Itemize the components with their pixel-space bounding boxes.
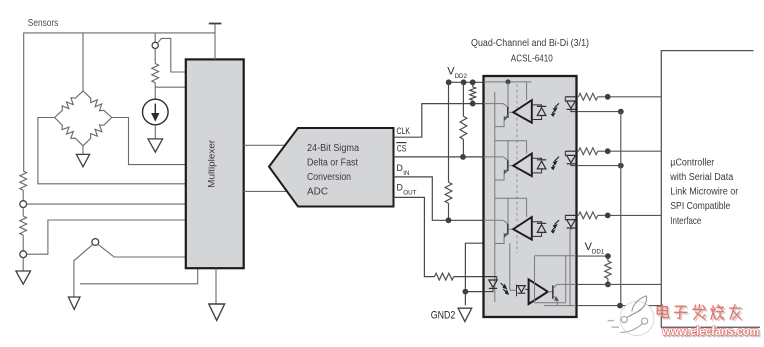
power bar VDD mux [214, 24, 216, 60]
wire: isolation barrier (dashed) [516, 84, 518, 253]
light arrows ch3 [554, 220, 559, 224]
svg-text:GND2: GND2 [431, 309, 456, 321]
resistor R series LED [577, 96, 579, 98]
wire CLK [394, 104, 505, 138]
wire to uController [611, 150, 662, 152]
svg-text:ADC: ADC [307, 186, 328, 197]
ground current source [154, 125, 156, 139]
opto channel 1 buffer triangle [513, 100, 532, 123]
svg-text:DD2: DD2 [455, 73, 468, 80]
uController block [661, 51, 760, 328]
ground divider [22, 258, 24, 271]
svg-text:Delta or Fast: Delta or Fast [307, 158, 358, 169]
svg-text:24-Bit Sigma: 24-Bit Sigma [307, 143, 360, 154]
wire: ch3 cathode internal to GND1 [569, 230, 571, 306]
resistor R series LED [577, 214, 579, 216]
node A divider tap 1 [20, 201, 27, 208]
svg-text:www.elecfans.com: www.elecfans.com [661, 325, 759, 338]
diode receiver ch4 [516, 285, 518, 297]
opto channel 2 input stage [484, 156, 504, 158]
wire: GND1 to uController [577, 305, 661, 307]
node B divider tap 2 [20, 251, 27, 258]
wire DOUT [394, 197, 435, 276]
svg-text:with Serial Data: with Serial Data [669, 172, 733, 183]
svg-text:D: D [397, 163, 403, 173]
switch sensor contact [92, 239, 99, 246]
wire GND2 net [465, 243, 509, 305]
diode LED monitor ch2 [532, 158, 542, 160]
wire: terminal jog to mux [157, 38, 185, 72]
node: sensor top rail [24, 33, 215, 171]
ground GND2 [458, 308, 472, 321]
diode LED monitor ch3 [532, 222, 542, 224]
svg-text:Sensors: Sensors [28, 18, 58, 29]
svg-text:OUT: OUT [403, 189, 416, 196]
opto channel 2 buffer triangle [513, 154, 532, 177]
opto channel 4 LED input [484, 276, 497, 278]
wire: terminal feed [154, 33, 156, 42]
svg-text:CLK: CLK [397, 126, 411, 136]
wire: bridge left output [38, 118, 186, 184]
wire: switch output to mux [98, 244, 186, 257]
wire: mux to ADC lower [244, 190, 288, 192]
op-amp/ADC block U2 [269, 128, 394, 207]
multiplexer U1 [186, 59, 244, 268]
svg-text:Multiplexer: Multiplexer [207, 139, 218, 188]
svg-text:Conversion: Conversion [307, 172, 351, 183]
svg-text:D: D [397, 182, 403, 192]
wire to uController [611, 214, 662, 216]
wire VDD1 [577, 255, 605, 257]
wire: ch4 bias frame [535, 255, 577, 257]
resistor R sense [154, 49, 156, 64]
diode LED input ch1 [565, 96, 576, 98]
current source I1 [143, 99, 169, 125]
resistor R pullup CLK [472, 82, 474, 87]
wire DIN [394, 177, 505, 220]
ground bridge [82, 146, 84, 155]
resistor R series LED [577, 150, 579, 152]
resistor R pullup DOUT [607, 259, 609, 261]
wire: bridge top feed [82, 33, 84, 91]
light arrows ch1 [554, 103, 559, 107]
svg-text:Quad-Channel and Bi-Di (3/1): Quad-Channel and Bi-Di (3/1) [471, 38, 589, 49]
wire: mux to ADC upper [244, 144, 286, 146]
light arrows ch2 [554, 157, 559, 161]
wire: internal GND1 [544, 305, 576, 307]
wire: spare input to mux bottom [80, 269, 198, 284]
light arrows ch4 [501, 283, 506, 288]
diode LED monitor ch1 [532, 105, 542, 107]
wire: mux bottom pin [215, 268, 217, 304]
svg-text:Link Microwire or: Link Microwire or [670, 187, 739, 198]
wire: bridge right output [112, 118, 186, 165]
resistor R pullup DIN [448, 82, 450, 182]
svg-text:IN: IN [403, 170, 409, 177]
svg-text:DD1: DD1 [592, 249, 605, 256]
opto channel 3 buffer triangle [513, 217, 532, 240]
svg-text:Interface: Interface [670, 216, 701, 227]
opto channel 1 input stage [484, 103, 504, 105]
wire to uController [611, 96, 662, 98]
resistor R divider bottom [22, 208, 24, 217]
bridge sensor (4 resistors) [55, 91, 83, 118]
transistor Q out ch4 [548, 291, 553, 293]
ground switch [68, 297, 80, 309]
svg-text:µController: µController [670, 157, 715, 168]
opto channel 4 buffer triangle [529, 279, 548, 304]
wire: internal VDD2 rail [484, 81, 532, 83]
optocoupler IC U3 ACSL-6410 [484, 76, 577, 317]
wire CS [394, 156, 505, 158]
wire: switch to ground [74, 244, 93, 297]
resistor R pullup CS [462, 82, 464, 116]
svg-text:SPI Compatible: SPI Compatible [670, 201, 730, 212]
wire VDD2 rail [449, 81, 484, 83]
wire: internal left bus [494, 92, 496, 302]
resistor R dout series [435, 273, 454, 280]
wire: cathode returns [577, 111, 618, 113]
resistor R divider top [20, 171, 27, 190]
svg-text:CS: CS [397, 143, 407, 153]
diode LED input ch2 [565, 150, 576, 152]
ground mux [209, 304, 225, 320]
diode LED input ch3 [565, 214, 576, 216]
wire: current source tap to mux [155, 86, 186, 88]
wire: cathode common rail [620, 112, 622, 306]
wire: ch4 output to uController [577, 283, 661, 285]
decorative watermark text [659, 307, 669, 309]
opto channel 3 input stage [484, 219, 504, 221]
node: open terminal [152, 42, 158, 48]
decorative watermark logo [608, 296, 654, 336]
svg-text:ACSL-6410: ACSL-6410 [511, 53, 553, 64]
